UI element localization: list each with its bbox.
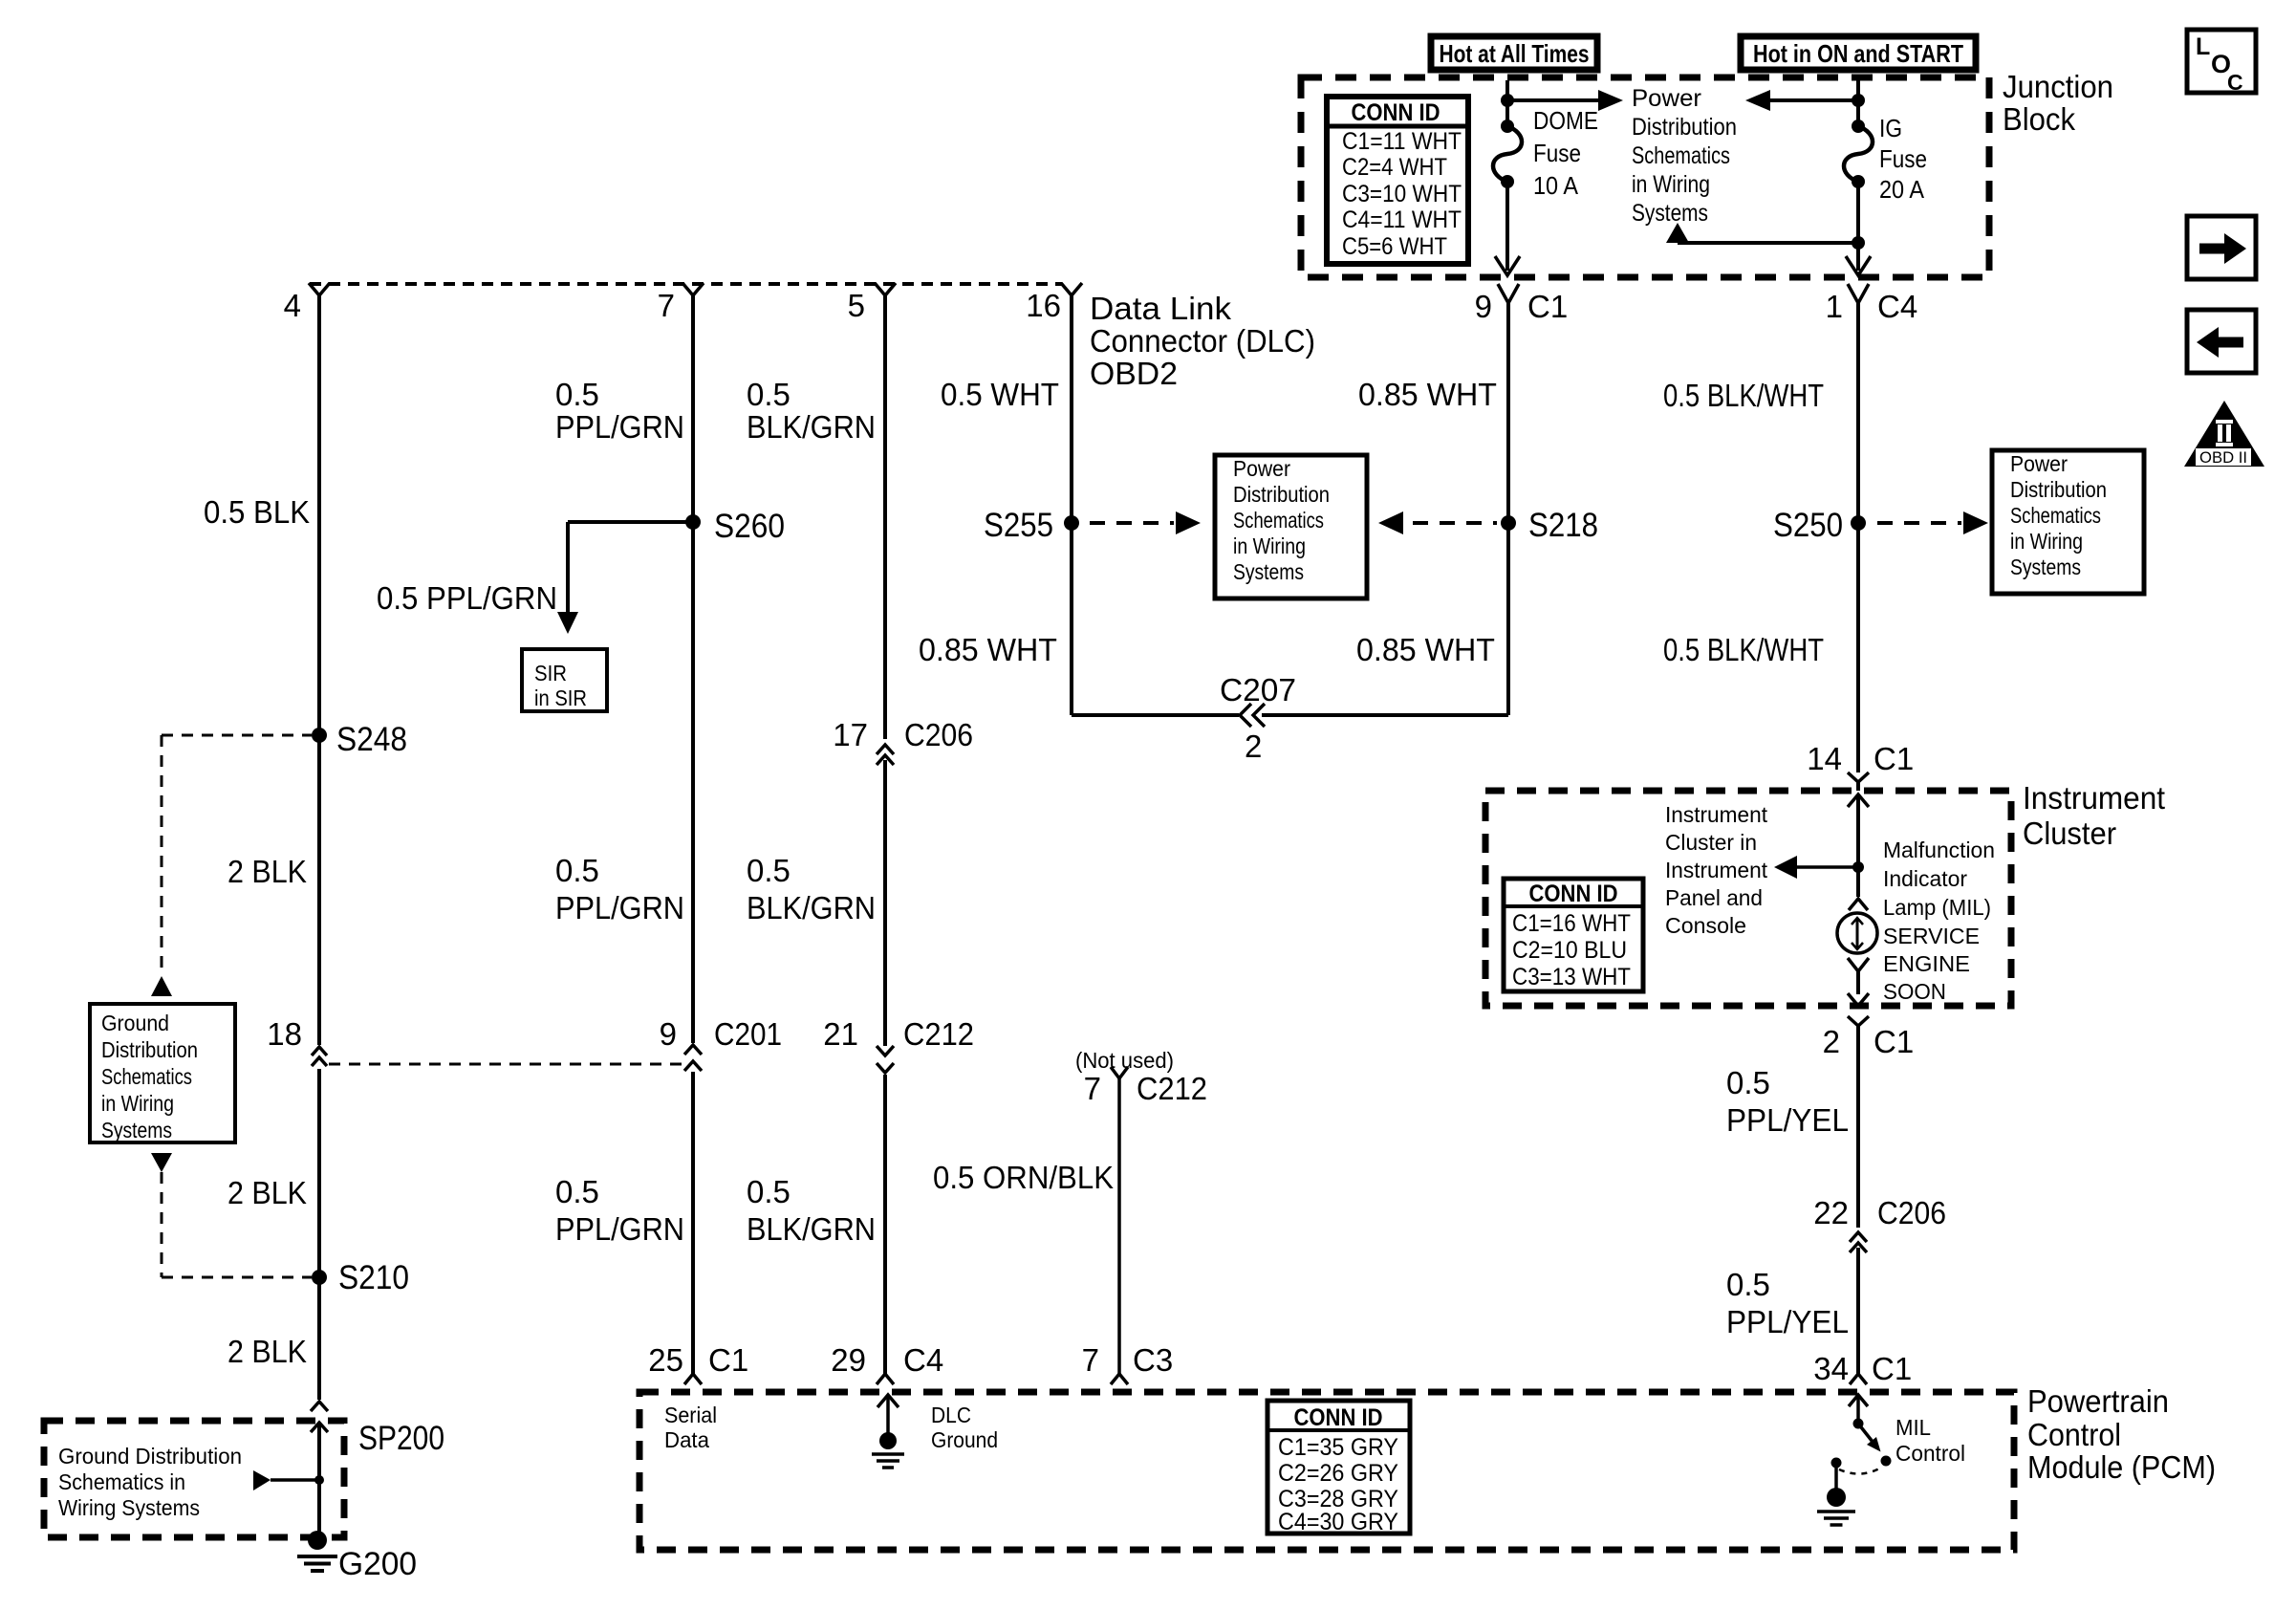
svg-text:Serial: Serial	[664, 1403, 717, 1427]
node: IG feed junction dot	[1852, 94, 1865, 107]
junction power distribution note	[1632, 85, 1737, 227]
svg-text:in Wiring: in Wiring	[1233, 533, 1306, 558]
svg-text:Data Link: Data Link	[1090, 291, 1232, 326]
dashed link ground distribution box to S210	[162, 1172, 312, 1277]
label: 34 C1	[1813, 1351, 1912, 1386]
svg-text:0.5: 0.5	[1726, 1267, 1770, 1302]
svg-text:Distribution: Distribution	[101, 1037, 198, 1062]
ground distribution schematics box (left)	[90, 1004, 235, 1142]
label: 21 C212	[823, 1016, 974, 1052]
svg-text:Cluster: Cluster	[2023, 816, 2116, 851]
svg-text:C: C	[2227, 70, 2243, 95]
DLC pin 5 connector Y	[875, 283, 896, 295]
reference icon: left-arrow box	[2187, 310, 2256, 373]
svg-text:0.5 BLK/WHT: 0.5 BLK/WHT	[1663, 378, 1824, 413]
svg-text:7: 7	[658, 288, 675, 323]
wire: not-used C212 to C3	[1117, 1078, 1121, 1374]
wire: 2 C1 down to 22 C206	[1856, 1026, 1860, 1228]
label: 0.5 PPL/YEL (upper)	[1726, 1065, 1849, 1138]
DLC title	[1090, 291, 1315, 391]
svg-text:in Wiring: in Wiring	[1632, 171, 1710, 198]
PCM CONN ID table	[1267, 1401, 1410, 1535]
wire: 1 C4 down to S250	[1856, 303, 1860, 523]
instrument cluster dashed box	[1485, 791, 2011, 1006]
node: DOME feed junction dot	[1501, 94, 1514, 107]
svg-text:18: 18	[267, 1016, 302, 1052]
arrowhead: DOME output down	[1495, 256, 1520, 275]
pin label 16	[1026, 288, 1061, 323]
wire: C207 horizontal run	[1072, 713, 1508, 715]
arrow into SP200 wire	[253, 1470, 324, 1490]
svg-text:Connector (DLC): Connector (DLC)	[1090, 323, 1315, 359]
svg-text:Schematics: Schematics	[1233, 508, 1324, 533]
svg-text:Ground: Ground	[931, 1427, 998, 1452]
svg-text:Module (PCM): Module (PCM)	[2027, 1449, 2216, 1485]
dashed arrow S255 to power dist box	[1090, 511, 1201, 534]
svg-text:2 BLK: 2 BLK	[227, 854, 307, 889]
arrowhead into SIR box	[557, 612, 578, 634]
junction C4 pin 1 connector Y	[1848, 284, 1869, 303]
node S248	[312, 721, 407, 758]
wire: S260 branch to SIR	[568, 522, 693, 612]
svg-text:0.5: 0.5	[747, 377, 791, 412]
svg-text:S260: S260	[714, 508, 785, 545]
svg-text:C212: C212	[1137, 1071, 1207, 1106]
svg-text:Hot at All Times: Hot at All Times	[1440, 39, 1590, 68]
svg-text:PPL/GRN: PPL/GRN	[555, 1211, 684, 1247]
svg-text:C5=6 WHT: C5=6 WHT	[1342, 233, 1447, 260]
wire: SP200 to G200	[317, 1425, 321, 1540]
wire: IC entry to MIL lamp	[1856, 794, 1860, 897]
svg-text:0.5: 0.5	[747, 1174, 791, 1209]
dashed arrow S250 to power dist box	[1877, 511, 1988, 534]
label: 0.85 WHT (16 line)	[919, 632, 1057, 667]
fuse IG 20A	[1844, 100, 1873, 188]
svg-text:C4: C4	[1877, 289, 1917, 324]
node S210	[312, 1259, 409, 1296]
label: 0.85 WHT (9 line top)	[1358, 377, 1497, 412]
connector break C201	[684, 1045, 702, 1071]
connector break 18	[312, 1047, 327, 1066]
svg-text:C2=4 WHT: C2=4 WHT	[1342, 154, 1447, 181]
svg-text:C1: C1	[708, 1342, 748, 1378]
wire: S248 to 18 break	[317, 735, 321, 1045]
label: 2 BLK (middle)	[227, 1175, 307, 1210]
svg-text:OBD II: OBD II	[2199, 448, 2247, 467]
svg-text:in SIR: in SIR	[534, 685, 587, 710]
DLC connector dashed line	[310, 282, 1062, 286]
fuse DOME 10A	[1493, 100, 1522, 188]
arrow up to ground distribution box	[151, 976, 172, 996]
DLC pin 16 connector Y	[1061, 283, 1082, 295]
svg-text:0.5: 0.5	[747, 853, 791, 888]
label: DOME Fuse 10 A	[1533, 106, 1598, 200]
power distribution schematics box (middle)	[1215, 455, 1367, 598]
PCM title	[2027, 1383, 2216, 1485]
svg-text:Ground Distribution: Ground Distribution	[58, 1444, 242, 1469]
svg-text:Distribution: Distribution	[1632, 114, 1737, 141]
svg-text:C1=11 WHT: C1=11 WHT	[1342, 128, 1462, 155]
svg-text:0.5 WHT: 0.5 WHT	[941, 377, 1059, 412]
node S250	[1773, 507, 1866, 544]
label: 0.5 ORN/BLK	[933, 1160, 1114, 1195]
svg-text:0.5 BLK/WHT: 0.5 BLK/WHT	[1663, 632, 1824, 667]
svg-text:L: L	[2196, 33, 2210, 60]
arrow to Power Distribution (left)	[1745, 90, 1858, 111]
svg-text:S255: S255	[984, 507, 1053, 544]
svg-text:17: 17	[833, 717, 868, 752]
svg-text:0.85 WHT: 0.85 WHT	[919, 632, 1057, 667]
label box: Hot at All Times	[1431, 36, 1597, 70]
svg-text:C4=11 WHT: C4=11 WHT	[1342, 207, 1462, 233]
svg-text:0.5: 0.5	[555, 853, 599, 888]
break above MIL lamp	[1849, 899, 1868, 910]
label: 18	[267, 1016, 302, 1052]
svg-text:Ground: Ground	[101, 1011, 169, 1035]
svg-text:7: 7	[1082, 1342, 1099, 1378]
label: MIL Control	[1895, 1415, 1965, 1466]
label: 2 BLK (upper)	[227, 854, 307, 889]
svg-text:C201: C201	[714, 1016, 782, 1052]
connector break C206	[877, 745, 894, 765]
label: 22 C206	[1813, 1195, 1946, 1230]
wire: 18 to S210	[317, 1069, 321, 1277]
label: C207	[1220, 672, 1296, 707]
svg-text:9: 9	[660, 1016, 677, 1052]
svg-text:C3: C3	[1133, 1342, 1173, 1378]
svg-text:Schematics: Schematics	[1632, 142, 1730, 169]
svg-text:BLK/GRN: BLK/GRN	[747, 890, 876, 925]
svg-text:Schematics in: Schematics in	[58, 1469, 185, 1494]
wire: S255 down to C207 run	[1070, 523, 1073, 713]
svg-text:20 A: 20 A	[1879, 175, 1925, 204]
MIL lamp symbol	[1837, 913, 1877, 953]
svg-text:C1=35 GRY: C1=35 GRY	[1278, 1434, 1398, 1461]
svg-text:C2=26 GRY: C2=26 GRY	[1278, 1460, 1398, 1487]
svg-text:DOME: DOME	[1533, 106, 1598, 135]
svg-text:S210: S210	[338, 1259, 409, 1296]
SIR reference box	[522, 649, 607, 711]
junction block title	[2003, 69, 2113, 137]
label: 0.5 PPL/GRN (bottom)	[555, 1174, 684, 1247]
svg-text:Indicator: Indicator	[1883, 866, 1967, 891]
svg-text:Powertrain: Powertrain	[2027, 1383, 2169, 1419]
svg-text:Instrument: Instrument	[1665, 858, 1768, 882]
svg-text:Lamp (MIL): Lamp (MIL)	[1883, 895, 1991, 920]
arrow to Power Distribution (right)	[1507, 90, 1623, 111]
reference icon: LOC box	[2187, 30, 2256, 95]
wire: 22 C206 down to 34 C1	[1856, 1248, 1860, 1374]
svg-text:C3=10 WHT: C3=10 WHT	[1342, 181, 1462, 207]
label: 2 C1	[1823, 1024, 1915, 1059]
node S218	[1501, 507, 1598, 544]
arrow entering instrument cluster	[1848, 794, 1869, 807]
svg-text:SOON: SOON	[1883, 979, 1946, 1004]
svg-text:16: 16	[1026, 288, 1061, 323]
node: IG output branch dot	[1852, 236, 1865, 250]
svg-text:0.5: 0.5	[555, 377, 599, 412]
svg-text:22: 22	[1813, 1195, 1849, 1230]
svg-text:C1: C1	[1874, 741, 1914, 776]
pin label 1 C4	[1826, 289, 1918, 324]
wire: pin5 down to C206	[883, 295, 887, 739]
label: 0.5 PPL/YEL (lower)	[1726, 1267, 1849, 1339]
svg-text:CONN ID: CONN ID	[1529, 881, 1618, 907]
svg-text:0.5 ORN/BLK: 0.5 ORN/BLK	[933, 1160, 1114, 1195]
reference icon: OBD II triangle	[2184, 401, 2264, 467]
wire: S210 to SP200	[317, 1277, 321, 1400]
svg-text:21: 21	[823, 1016, 858, 1052]
svg-text:C207: C207	[1220, 672, 1296, 707]
label: IG Fuse 20 A	[1879, 114, 1927, 204]
svg-text:Panel and: Panel and	[1665, 885, 1763, 910]
svg-text:SP200: SP200	[358, 1420, 444, 1457]
svg-text:DLC: DLC	[931, 1403, 971, 1427]
svg-text:29: 29	[831, 1342, 866, 1378]
label: Serial Data	[664, 1403, 717, 1452]
node G200 ground	[297, 1531, 417, 1582]
connector break 22 C206	[1850, 1232, 1867, 1252]
svg-text:PPL/GRN: PPL/GRN	[555, 890, 684, 925]
label: 0.5 PPL/GRN (top)	[555, 377, 684, 445]
label: 14 C1	[1807, 741, 1914, 776]
connector foot 25 C1	[684, 1374, 702, 1384]
pin label 7	[658, 288, 675, 323]
svg-text:Distribution: Distribution	[1233, 482, 1330, 507]
label: 2 BLK (lower)	[227, 1334, 307, 1369]
label: DLC Ground	[931, 1403, 998, 1452]
svg-text:CONN ID: CONN ID	[1294, 1404, 1383, 1431]
svg-text:S248: S248	[336, 721, 407, 758]
svg-text:0.5: 0.5	[555, 1174, 599, 1209]
svg-text:Fuse: Fuse	[1533, 139, 1581, 167]
svg-text:2 BLK: 2 BLK	[227, 1175, 307, 1210]
connector break C212	[877, 1046, 894, 1073]
arrow DLC ground entering PCM	[877, 1395, 899, 1441]
DLC pin 4 connector Y	[309, 283, 330, 295]
wire: IG fuse output	[1856, 182, 1860, 271]
svg-text:Power: Power	[1233, 456, 1290, 481]
dashed arrow S218 to power dist box	[1378, 511, 1497, 534]
label: 0.85 WHT (9 line bottom)	[1356, 632, 1495, 667]
wire: C201 to 25 C1	[691, 1072, 695, 1374]
wire: pin16 down to S255	[1070, 295, 1073, 523]
svg-text:7: 7	[1084, 1071, 1101, 1106]
svg-text:Systems: Systems	[1632, 200, 1708, 227]
svg-text:C4=30 GRY: C4=30 GRY	[1278, 1509, 1398, 1535]
connector break C207 chevrons	[1240, 704, 1265, 727]
svg-text:C212: C212	[903, 1016, 974, 1052]
svg-text:in Wiring: in Wiring	[101, 1091, 174, 1116]
svg-text:10 A: 10 A	[1533, 171, 1579, 200]
svg-text:C2=10 BLU: C2=10 BLU	[1512, 937, 1627, 964]
ground distribution dashed box (bottom left)	[44, 1421, 344, 1537]
node: DLC ground dot	[872, 1432, 904, 1468]
connector foot 29 C4	[877, 1374, 894, 1384]
instrument cluster title	[2023, 780, 2165, 851]
svg-text:C4: C4	[903, 1342, 943, 1378]
junction block dashed box	[1301, 77, 1989, 277]
svg-text:0.5 BLK: 0.5 BLK	[204, 494, 310, 530]
svg-text:SERVICE: SERVICE	[1883, 924, 1980, 948]
svg-text:C1: C1	[1872, 1351, 1912, 1386]
svg-text:MIL: MIL	[1895, 1415, 1931, 1440]
splice break SP200 upper chevron	[311, 1402, 328, 1411]
svg-text:PPL/YEL: PPL/YEL	[1726, 1304, 1849, 1339]
label: 17 C206	[833, 717, 973, 752]
svg-text:Hot in ON and START: Hot in ON and START	[1753, 39, 1963, 68]
label: 25 C1	[648, 1342, 748, 1378]
arrowhead: IG output down	[1846, 256, 1871, 275]
arrow down from ground distribution box	[151, 1153, 172, 1172]
svg-text:PPL/GRN: PPL/GRN	[555, 409, 684, 445]
svg-text:Malfunction: Malfunction	[1883, 838, 1995, 862]
label: 0.5 BLK	[204, 494, 310, 530]
reference icon: right-arrow box	[2187, 216, 2256, 279]
svg-text:Systems: Systems	[1233, 559, 1304, 584]
node S260	[685, 508, 785, 545]
svg-text:S250: S250	[1773, 507, 1843, 544]
svg-text:Control: Control	[2027, 1417, 2121, 1452]
svg-text:in Wiring: in Wiring	[2010, 529, 2083, 554]
svg-text:4: 4	[284, 288, 301, 323]
svg-text:Fuse: Fuse	[1879, 144, 1927, 173]
label: 0.5 BLK/GRN (top)	[747, 377, 876, 445]
svg-text:C206: C206	[1877, 1195, 1946, 1230]
wire: C212 to 29 C4	[883, 1075, 887, 1374]
connector Y below MIL lamp	[1848, 958, 1869, 994]
svg-text:2: 2	[1823, 1024, 1840, 1059]
MIL control switch	[1831, 1419, 1892, 1474]
svg-text:0.85 WHT: 0.85 WHT	[1358, 377, 1497, 412]
node: IC branch dot	[1852, 861, 1864, 873]
label: 0.5 BLK/GRN (bottom)	[747, 1174, 876, 1247]
ground distribution text (bottom left)	[58, 1444, 242, 1520]
svg-text:2 BLK: 2 BLK	[227, 1334, 307, 1369]
power distribution schematics box (right)	[1992, 450, 2144, 594]
malfunction indicator lamp note	[1883, 838, 1995, 1004]
MIL control ground	[1817, 1463, 1855, 1525]
svg-text:S218: S218	[1528, 507, 1598, 544]
svg-text:25: 25	[648, 1342, 683, 1378]
label: 0.5 BLK/WHT (top)	[1663, 378, 1824, 413]
svg-text:Systems: Systems	[101, 1118, 172, 1142]
arrow exiting instrument cluster	[1848, 993, 1869, 1006]
wire: S218 down to C207 run	[1506, 523, 1510, 713]
label: C207 pin 2	[1245, 729, 1262, 764]
svg-text:C3=13 WHT: C3=13 WHT	[1512, 964, 1631, 990]
svg-text:Console: Console	[1665, 913, 1746, 938]
branch wire to power distribution arrow	[1666, 223, 1858, 243]
wire: Hot-at-All-Times feed into junction	[1505, 80, 1509, 100]
label: (Not used)	[1075, 1048, 1174, 1073]
svg-text:9: 9	[1475, 289, 1492, 324]
svg-text:1: 1	[1826, 289, 1843, 324]
label: 0.5 PPL/GRN (mid)	[555, 853, 684, 925]
dashed link S248 to ground distribution box	[162, 735, 312, 976]
svg-text:Power: Power	[1632, 85, 1701, 112]
label: 29 C4	[831, 1342, 943, 1378]
powertrain control module dashed box	[639, 1392, 2014, 1550]
svg-text:Instrument: Instrument	[1665, 802, 1768, 827]
svg-text:0.5 PPL/GRN: 0.5 PPL/GRN	[377, 580, 557, 616]
svg-text:Instrument: Instrument	[2023, 780, 2165, 816]
pin label 4	[284, 288, 301, 323]
pin label 5	[848, 288, 865, 323]
svg-text:Wiring Systems: Wiring Systems	[58, 1495, 200, 1520]
label: 0.5 BLK/WHT (bottom)	[1663, 632, 1824, 667]
svg-text:ENGINE: ENGINE	[1883, 951, 1970, 976]
svg-text:IG: IG	[1879, 114, 1902, 142]
wire: S250 down to 14 C1	[1856, 523, 1860, 772]
svg-text:G200: G200	[338, 1546, 417, 1582]
label: 0.5 PPL/GRN (branch)	[377, 580, 557, 616]
connector Y 2 C1	[1848, 1016, 1869, 1026]
splice break SP200 lower chevron	[311, 1423, 328, 1432]
svg-text:PPL/YEL: PPL/YEL	[1726, 1102, 1849, 1138]
svg-text:OBD2: OBD2	[1090, 356, 1178, 391]
svg-text:0.85 WHT: 0.85 WHT	[1356, 632, 1495, 667]
arrow to instrument panel note	[1774, 856, 1858, 879]
arrow MIL control entering PCM	[1849, 1395, 1868, 1424]
wire: 9 C1 down to S218	[1506, 303, 1510, 523]
wire: C206 to C212	[883, 760, 887, 1046]
C201 thin dashed connector line	[329, 1063, 684, 1066]
svg-text:Block: Block	[2003, 101, 2075, 137]
label: 9 C201	[660, 1016, 782, 1052]
label SP200	[358, 1420, 444, 1457]
label: 0.5 BLK/GRN (mid)	[747, 853, 876, 925]
junction CONN ID table	[1327, 97, 1468, 264]
node S255	[984, 507, 1079, 544]
svg-text:Distribution: Distribution	[2010, 477, 2107, 502]
junction C1 pin 9 connector Y	[1498, 284, 1519, 303]
pin label 9 C1	[1475, 289, 1569, 324]
wire: pin7 down to S260	[691, 295, 695, 522]
IC CONN ID table	[1504, 879, 1643, 991]
svg-text:CONN ID: CONN ID	[1352, 99, 1440, 126]
svg-text:5: 5	[848, 288, 865, 323]
label box: Hot in ON and START	[1741, 36, 1976, 70]
connector Y 14 C1	[1848, 772, 1869, 791]
svg-text:BLK/GRN: BLK/GRN	[747, 409, 876, 445]
svg-text:C206: C206	[904, 717, 973, 752]
wire: DOME fuse output	[1505, 182, 1509, 271]
svg-text:C1=16 WHT: C1=16 WHT	[1512, 910, 1631, 937]
svg-text:C1: C1	[1874, 1024, 1914, 1059]
svg-text:2: 2	[1245, 729, 1262, 764]
label: 7 C212	[1084, 1071, 1207, 1106]
svg-text:BLK/GRN: BLK/GRN	[747, 1211, 876, 1247]
label: 7 C3	[1082, 1342, 1174, 1378]
wire: Hot-in-ON feed into junction	[1856, 80, 1860, 100]
wire: pin4 BLK down to S248	[317, 295, 321, 735]
svg-text:Data: Data	[664, 1427, 709, 1452]
svg-text:Schematics: Schematics	[101, 1064, 192, 1089]
svg-text:C1: C1	[1527, 289, 1568, 324]
svg-text:Junction: Junction	[2003, 69, 2113, 104]
connector foot 34 C1	[1850, 1374, 1867, 1384]
svg-text:SIR: SIR	[534, 661, 567, 685]
wire: S260 to C201	[691, 522, 695, 1043]
svg-text:Cluster in: Cluster in	[1665, 830, 1757, 855]
connector foot 7 C3	[1111, 1374, 1128, 1384]
svg-text:14: 14	[1807, 741, 1842, 776]
svg-text:Control: Control	[1895, 1441, 1965, 1466]
svg-text:Systems: Systems	[2010, 555, 2081, 579]
label: 0.5 WHT	[941, 377, 1059, 412]
connector Y 7 C212	[1111, 1067, 1128, 1078]
